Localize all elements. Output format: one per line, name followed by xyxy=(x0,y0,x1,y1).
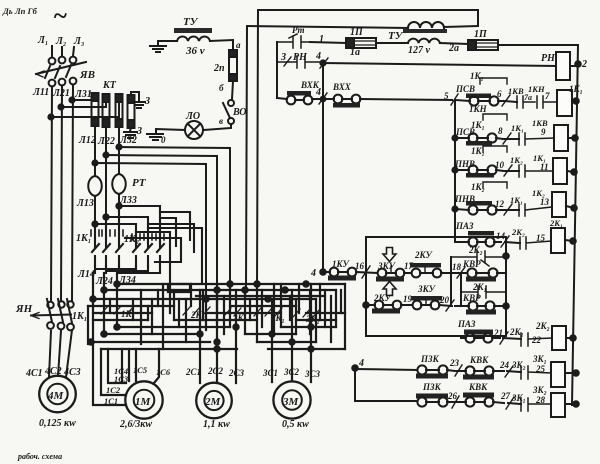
wire vert 245 lower xyxy=(244,288,246,334)
contact 2KU nc circles xyxy=(412,269,421,278)
svg-text:2К₂: 2К₂ xyxy=(468,245,483,255)
node L13 branch xyxy=(116,203,121,208)
node rail row1 xyxy=(573,98,579,104)
svg-text:1К₁: 1К₁ xyxy=(510,195,523,205)
node branch L12 xyxy=(92,160,97,165)
interlock bracket row3 xyxy=(483,146,507,152)
svg-text:ТУ: ТУ xyxy=(388,30,404,42)
svg-text:2п: 2п xyxy=(213,63,225,74)
svg-text:1КН: 1КН xyxy=(528,84,545,94)
wire cross branch 3 xyxy=(95,224,136,242)
switch 12 slash xyxy=(504,204,512,215)
wire 21 to cap xyxy=(503,338,521,339)
wire RN coil to rail xyxy=(570,65,578,67)
wire fuse4 top to ground xyxy=(131,92,139,101)
wire weave v141 xyxy=(140,290,142,344)
switch 21 slash xyxy=(500,332,508,344)
wire node4 vertical xyxy=(354,368,356,401)
svg-text:Л32: Л32 xyxy=(119,135,137,146)
wire KVR row1 to box edge xyxy=(476,272,506,274)
aux contact 1KV row1 xyxy=(517,96,535,108)
node cross 268 xyxy=(265,296,270,301)
svg-text:2К₁: 2К₁ xyxy=(549,218,563,228)
svg-text:2С1: 2С1 xyxy=(185,367,201,377)
svg-text:2: 2 xyxy=(581,59,587,70)
svg-text:28: 28 xyxy=(535,395,546,405)
node dots scatter xyxy=(197,331,202,336)
node bus2 xyxy=(101,287,106,292)
svg-text:4: 4 xyxy=(310,268,316,279)
wire weave v285 xyxy=(291,290,293,381)
fuse 1P second xyxy=(468,40,498,50)
wire lamp to ground xyxy=(156,129,185,133)
svg-text:4: 4 xyxy=(315,51,321,62)
svg-text:Л12: Л12 xyxy=(78,135,96,146)
wire 14 to cap row5 xyxy=(505,242,520,243)
svg-text:15: 15 xyxy=(536,233,546,243)
wire phase drop L14 xyxy=(92,273,94,342)
svg-text:1КН: 1КН xyxy=(469,104,488,114)
switch AN blades xyxy=(47,299,72,323)
svg-text:21: 21 xyxy=(493,328,503,338)
switch 5 slash xyxy=(451,94,458,105)
wire weave v345 xyxy=(344,284,346,349)
svg-text:Л₁: Л₁ xyxy=(37,35,48,46)
ground symbol upper-right of KT xyxy=(133,102,145,108)
wire coil3K2 to rail xyxy=(565,403,576,405)
button 3KU bar xyxy=(376,277,404,282)
wire vert 230 lower xyxy=(229,287,231,327)
contact KVK row2 circles xyxy=(465,397,474,406)
svg-text:3С1: 3С1 xyxy=(262,368,278,378)
svg-text:рабоч. схема: рабоч. схема xyxy=(17,452,62,461)
button 2KU circles xyxy=(375,301,384,310)
svg-text:1С5: 1С5 xyxy=(133,365,148,375)
svg-text:ЯВ: ЯВ xyxy=(79,69,95,81)
lamp LO xyxy=(185,121,203,139)
svg-text:2С3: 2С3 xyxy=(228,368,245,378)
wire node4 to PZK row1 xyxy=(355,369,417,370)
svg-text:3С2: 3С2 xyxy=(283,367,300,377)
contact 2KU nc stem xyxy=(424,267,426,272)
wire recombine 2 xyxy=(106,266,148,273)
wire coil1 to rail xyxy=(572,101,576,102)
SECTION: ladder xyxy=(444,45,587,405)
transformer TU shading band xyxy=(174,28,212,33)
node branch L32 xyxy=(116,144,121,149)
wire cross branch 2 xyxy=(106,217,148,242)
relay coil RN xyxy=(556,52,570,80)
wire KVK row1 xyxy=(457,370,504,372)
interlock bracket row1 xyxy=(480,78,507,84)
wire fuse to right rail xyxy=(498,44,577,46)
wire bus3 xyxy=(93,298,316,300)
svg-text:ПАЗ: ПАЗ xyxy=(457,319,476,329)
node cross 285 xyxy=(282,287,287,292)
node rail row21 xyxy=(570,335,576,341)
switch 10 slash xyxy=(504,165,512,176)
wire fuse to switch VO xyxy=(232,81,233,99)
contact PZK row2 circles xyxy=(417,397,426,406)
wire phase L1 drop xyxy=(51,46,53,57)
contact KVK row1 circles xyxy=(465,366,474,375)
switch VO upper contact xyxy=(228,100,234,106)
node rail row4 xyxy=(571,205,577,211)
transformer primary shading band xyxy=(403,29,447,33)
svg-text:8: 8 xyxy=(498,126,503,136)
switch AN lower contacts xyxy=(47,322,54,329)
node junction phase C to fuses xyxy=(69,97,74,102)
switch 18 slash xyxy=(457,267,465,278)
svg-text:3С3: 3С3 xyxy=(304,369,321,379)
wire row 320 xyxy=(93,319,336,321)
thermal element RT phase C xyxy=(112,174,126,206)
wire weave v306 xyxy=(310,284,312,382)
wire row 334 xyxy=(104,333,296,335)
wire recombine 3 xyxy=(119,266,160,273)
node cross 206 xyxy=(203,296,208,301)
wire RT to fuse 1P xyxy=(310,42,346,43)
wire weave v296 xyxy=(295,299,297,334)
SECTION: control top rails xyxy=(246,10,577,288)
svg-text:1С3: 1С3 xyxy=(114,374,129,384)
wire mesh left edge xyxy=(87,306,89,344)
contact VXX bar xyxy=(333,103,360,108)
wire vert 451 xyxy=(450,257,452,306)
switch 8 slash xyxy=(503,133,511,144)
node cross 306 xyxy=(303,281,308,286)
svg-text:127 v: 127 v xyxy=(408,45,431,56)
node cross 217 xyxy=(214,287,219,292)
wire recombine 1 xyxy=(95,266,136,273)
SECTION: top-left power input xyxy=(2,3,230,301)
svg-text:ПСВ: ПСВ xyxy=(455,84,475,94)
svg-text:1К₁: 1К₁ xyxy=(470,71,484,81)
wire VO to lamp xyxy=(203,124,231,130)
wire to fuse 2 xyxy=(61,96,106,107)
wire coil2 to rail xyxy=(568,137,575,139)
svg-text:Л21: Л21 xyxy=(52,88,70,99)
svg-text:7: 7 xyxy=(545,91,550,101)
svg-text:4: 4 xyxy=(315,87,321,98)
contact PAZ row21 bar xyxy=(464,330,493,335)
wire row 327 xyxy=(117,326,336,328)
aux contact 2K1 row21 xyxy=(521,333,552,346)
svg-text:а: а xyxy=(236,40,241,50)
wire loop mid c xyxy=(160,218,176,246)
switch 20 slash xyxy=(446,300,454,311)
svg-text:18: 18 xyxy=(452,262,462,272)
button 3KU contact circles xyxy=(378,269,387,278)
contactor coil 1K1 xyxy=(557,90,572,116)
button 3KU stop arrow xyxy=(383,248,396,262)
contact KVK row2 bar xyxy=(463,393,494,398)
wire branch to 2M/3M bus 1 xyxy=(119,147,230,287)
SECTION: lamp circuit xyxy=(147,16,246,145)
svg-text:1а: 1а xyxy=(350,47,360,58)
breaker AV bar with arrow xyxy=(36,62,86,74)
aux contact 3K2 row1 xyxy=(521,366,551,379)
fuse KT-3 xyxy=(116,94,123,127)
wire row 313 xyxy=(93,312,345,314)
wire cross branch 1 xyxy=(119,206,160,242)
svg-text:1С1: 1С1 xyxy=(104,396,118,406)
contact PZK row1 circles xyxy=(417,365,426,374)
contact 3KU nc stem xyxy=(425,300,427,304)
wire rail down left outer xyxy=(257,10,258,288)
wire row RN to coil RN xyxy=(323,63,556,66)
svg-text:Дь Лп Гб: Дь Лп Гб xyxy=(2,6,38,16)
wire 4M lead2 xyxy=(58,331,61,376)
contact PAZ row5 bar xyxy=(468,231,494,236)
svg-text:3К₂: 3К₂ xyxy=(532,385,547,395)
wire row 296 xyxy=(196,295,325,297)
node cross 257 xyxy=(254,281,259,286)
wire weave v268 xyxy=(271,299,273,382)
node rail-left row2 xyxy=(452,135,457,140)
contactor coil 1K1f xyxy=(553,158,567,184)
breaker AV lower contacts xyxy=(49,80,56,87)
SECTION: reversing contacts xyxy=(76,203,202,287)
svg-text:Л₃: Л₃ xyxy=(73,36,84,47)
node box left edge row19 xyxy=(363,302,369,308)
svg-text:КВК: КВК xyxy=(469,355,489,365)
wire coil5 to rail xyxy=(565,240,573,241)
switch 4 slash xyxy=(320,58,328,68)
wire weave v325 xyxy=(324,290,326,327)
contact KVK row1 bar xyxy=(463,375,494,380)
svg-text:~: ~ xyxy=(53,3,67,30)
fuse KT-2 xyxy=(103,94,110,127)
wire 1M lead8 xyxy=(154,349,159,383)
node 4 lower xyxy=(352,365,358,371)
svg-text:3К₁: 3К₁ xyxy=(511,393,526,403)
wire row2 xyxy=(455,138,503,139)
node box edge row14 drop xyxy=(503,253,509,259)
switch 14 slash xyxy=(501,236,509,247)
switch 23 slash xyxy=(455,365,462,376)
wire bus2 xyxy=(104,289,336,291)
wire 10 to cap row3 xyxy=(506,170,519,172)
wire 4M lead3 xyxy=(66,330,72,377)
wire row16 xyxy=(323,272,377,273)
node bus1 xyxy=(114,281,119,286)
aux contact 2K2 row5 xyxy=(520,237,551,249)
svg-text:3К₂: 3К₂ xyxy=(511,360,526,370)
breaker AV blades xyxy=(45,66,50,78)
svg-text:З: З xyxy=(136,126,142,137)
button 3KU stem xyxy=(390,266,392,272)
wire 8 to cap row2 xyxy=(505,138,519,140)
node rail kvk1 xyxy=(573,370,579,376)
svg-text:36 v: 36 v xyxy=(185,45,205,57)
wire loop mid b xyxy=(125,238,181,262)
motor 4M xyxy=(39,376,76,413)
wire 6 to cap xyxy=(504,101,517,102)
svg-text:1М: 1М xyxy=(135,396,152,408)
wire 3KU to 2KU xyxy=(386,272,411,274)
contact RN xyxy=(277,56,322,68)
contactor coil 1KV xyxy=(554,125,568,151)
svg-text:ЯН: ЯН xyxy=(15,303,33,315)
wire fuse to 127v winding xyxy=(376,42,408,44)
contact slashes mesh row xyxy=(101,306,320,317)
wire row21 xyxy=(461,337,500,339)
wire winding to fuse 1P second xyxy=(440,43,468,44)
node 4b xyxy=(321,97,326,102)
wire weave v281 xyxy=(280,284,282,327)
fuse KT-1 xyxy=(92,93,99,126)
svg-text:22: 22 xyxy=(531,335,542,345)
svg-text:2К₂: 2К₂ xyxy=(535,321,550,331)
wire weave v163 xyxy=(162,284,164,349)
wire 3KU nc right xyxy=(421,305,452,306)
node rail-left row4 xyxy=(452,206,457,211)
wire weave v186 xyxy=(185,299,187,342)
contact 2KU nc bar xyxy=(410,263,441,268)
svg-text:12: 12 xyxy=(495,199,505,209)
switch AN upper contacts xyxy=(47,302,53,308)
svg-text:ЗКУ: ЗКУ xyxy=(417,284,437,294)
switch 24 slash xyxy=(505,366,513,377)
wire coil2K2 to rail xyxy=(566,337,573,339)
wire 27 to cap xyxy=(508,403,521,404)
interlock bracket row2 xyxy=(483,114,507,120)
contact PSV row1 circles xyxy=(469,96,478,105)
fuse KT-4 xyxy=(128,95,135,128)
motor 3M xyxy=(273,381,310,418)
svg-text:27: 27 xyxy=(500,391,511,401)
contact PAZ row5 circles xyxy=(468,237,477,246)
aux contact 1K2 row3 xyxy=(519,165,553,177)
node bus3 xyxy=(90,296,95,301)
contactor 1K1 poles xyxy=(92,206,123,266)
node cross 230 xyxy=(227,281,232,286)
node box edge kvr2 xyxy=(503,303,509,309)
button 2KU bar xyxy=(372,309,400,314)
svg-text:КВК: КВК xyxy=(468,382,488,392)
wire phase L3 drop xyxy=(73,47,74,56)
wire 1M stair lead3 xyxy=(108,349,126,383)
svg-text:5: 5 xyxy=(444,91,449,101)
wire loop right lower xyxy=(148,228,202,284)
transformer TU 36v winding xyxy=(177,36,210,41)
svg-text:КТ: КТ xyxy=(102,80,117,91)
contactor 1K2 poles xyxy=(133,242,164,266)
wire weave stubs xyxy=(110,284,341,342)
wire coil3K1 to rail xyxy=(565,372,576,374)
contact 3KU nc bar xyxy=(411,296,442,301)
transformer TU primary winding xyxy=(408,22,444,28)
svg-text:ПЗК: ПЗК xyxy=(420,354,440,364)
svg-text:ПНВ: ПНВ xyxy=(454,159,475,169)
interlock bracket row4 xyxy=(483,182,507,188)
wire VHK row xyxy=(277,98,334,100)
svg-text:1КВ: 1КВ xyxy=(532,118,548,128)
wire VXX to ladder rail xyxy=(342,99,452,100)
wire PZK to 23 xyxy=(426,370,455,371)
node rail row3 xyxy=(571,169,577,175)
svg-text:в: в xyxy=(219,116,223,126)
wire weave v336 xyxy=(335,290,337,327)
svg-text:1К₁: 1К₁ xyxy=(72,311,87,322)
svg-text:0,125 кw: 0,125 кw xyxy=(39,418,76,429)
wire phase drop L34 xyxy=(116,273,118,327)
wire phase A down to AN xyxy=(51,87,52,301)
wire winding to fuse 2P xyxy=(210,40,233,50)
contactor coil 3K1 xyxy=(551,362,565,387)
contact 1KU circles xyxy=(330,268,339,277)
node cross 245 xyxy=(242,287,247,292)
svg-text:1КВ: 1КВ xyxy=(508,86,524,96)
switch 27 slash xyxy=(506,397,514,409)
wire 2KU to KVR row xyxy=(420,272,467,274)
contact RT (thermal NC) xyxy=(277,34,310,48)
contact PNV row4 bar xyxy=(466,201,492,206)
node 4 xyxy=(320,60,325,65)
aux contact 2K1 xyxy=(461,286,506,298)
svg-text:ТУ: ТУ xyxy=(183,16,199,28)
fuse 1P first xyxy=(346,38,376,48)
node rail row5 xyxy=(570,238,576,244)
svg-text:1С6: 1С6 xyxy=(156,367,171,377)
wire row5 xyxy=(455,241,501,243)
thermal element RT phase A xyxy=(88,176,102,224)
node L33 branch xyxy=(92,221,97,226)
ladder left rail xyxy=(454,100,456,242)
contact PAZ row21 circles xyxy=(465,333,474,342)
aux contact 1K1 row2 xyxy=(519,133,554,145)
enclosure box outline xyxy=(366,237,506,336)
wire 1M lead6 xyxy=(135,349,137,381)
switch 16 slash xyxy=(362,266,370,278)
wire stair down 1 xyxy=(132,299,134,320)
contact KVR row1 circles xyxy=(467,268,476,277)
node rail row2 xyxy=(572,135,578,141)
node junction phase A to fuses xyxy=(48,114,53,119)
wire winding to ground xyxy=(158,41,177,45)
contactor coil 2K1 xyxy=(551,228,565,253)
wire vert 257 lower xyxy=(256,287,258,342)
node 4 row16 xyxy=(320,269,326,275)
SECTION: button box xyxy=(310,237,576,350)
contact PSV row1 bar xyxy=(466,94,491,99)
transformer TU 127v winding xyxy=(408,39,440,43)
wire weave v174 xyxy=(173,290,175,320)
wire vert 217 lower xyxy=(216,290,218,323)
svg-text:1,1 кw: 1,1 кw xyxy=(203,419,230,430)
wire weave v215 xyxy=(216,284,218,383)
wire loop right upper xyxy=(160,212,190,240)
svg-text:0,5 кw: 0,5 кw xyxy=(282,419,309,430)
wire top rail xyxy=(259,10,478,26)
aux contact 1K1 row4 xyxy=(519,204,552,216)
SECTION: kvk rows xyxy=(352,354,579,417)
wire loop mid a xyxy=(136,232,170,284)
svg-text:Л13: Л13 xyxy=(76,198,94,209)
wire phase drop L24 xyxy=(103,273,105,334)
wire second rail xyxy=(247,26,478,28)
wire 1M stair lead2 xyxy=(101,349,126,395)
svg-text:4С1: 4С1 xyxy=(25,368,43,379)
wire KVK row2 xyxy=(454,402,504,403)
contact PNV row3 circles xyxy=(468,165,477,174)
button 2KU start arrow xyxy=(383,282,396,296)
wire 24 to cap xyxy=(507,371,521,372)
wire branch to 2M/3M bus 2 xyxy=(106,155,217,290)
wire row3 xyxy=(455,170,504,171)
svg-text:23: 23 xyxy=(449,358,460,368)
